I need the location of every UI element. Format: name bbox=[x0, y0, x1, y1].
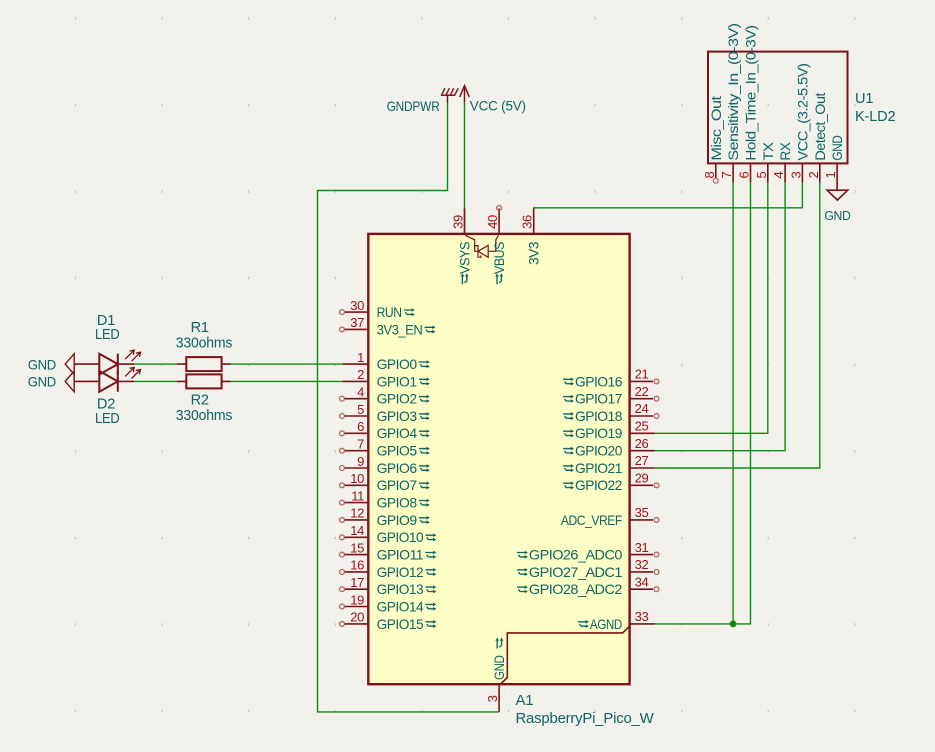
svg-text:5: 5 bbox=[357, 402, 364, 417]
svg-text:4: 4 bbox=[771, 172, 786, 179]
svg-text:3: 3 bbox=[485, 695, 500, 702]
svg-text:1: 1 bbox=[823, 172, 838, 179]
svg-text:21: 21 bbox=[635, 367, 649, 382]
svg-text:34: 34 bbox=[635, 574, 649, 589]
svg-text:GPIO20: GPIO20 bbox=[575, 444, 623, 459]
svg-text:22: 22 bbox=[635, 384, 649, 399]
svg-text:5: 5 bbox=[754, 172, 769, 179]
svg-text:35: 35 bbox=[635, 505, 649, 520]
svg-text:GPIO13: GPIO13 bbox=[377, 582, 424, 597]
svg-text:GPIO8: GPIO8 bbox=[377, 496, 418, 511]
svg-text:330ohms: 330ohms bbox=[176, 408, 233, 424]
svg-text:RX: RX bbox=[778, 142, 793, 160]
svg-text:11: 11 bbox=[351, 488, 364, 503]
svg-text:GPIO26_ADC0: GPIO26_ADC0 bbox=[529, 548, 623, 563]
svg-text:GPIO4: GPIO4 bbox=[377, 426, 418, 441]
svg-text:31: 31 bbox=[635, 540, 649, 555]
svg-text:7: 7 bbox=[357, 437, 364, 452]
svg-text:15: 15 bbox=[350, 540, 364, 555]
svg-text:GPIO1: GPIO1 bbox=[377, 374, 417, 389]
svg-text:VSYS: VSYS bbox=[457, 242, 472, 274]
svg-text:29: 29 bbox=[635, 471, 649, 486]
svg-text:GPIO14: GPIO14 bbox=[377, 599, 424, 614]
svg-text:26: 26 bbox=[635, 436, 649, 451]
svg-text:GPIO0: GPIO0 bbox=[377, 357, 418, 372]
svg-text:GND: GND bbox=[824, 208, 850, 223]
svg-text:LED: LED bbox=[95, 327, 120, 343]
svg-text:GPIO9: GPIO9 bbox=[377, 513, 418, 528]
svg-text:GPIO28_ADC2: GPIO28_ADC2 bbox=[529, 582, 622, 597]
svg-text:6: 6 bbox=[357, 419, 364, 434]
svg-text:2: 2 bbox=[357, 367, 364, 382]
svg-text:GPIO22: GPIO22 bbox=[575, 478, 622, 493]
svg-text:GPIO3: GPIO3 bbox=[377, 409, 418, 424]
svg-text:GND: GND bbox=[28, 357, 56, 372]
svg-text:TX: TX bbox=[761, 142, 776, 160]
svg-text:330ohms: 330ohms bbox=[176, 335, 233, 351]
svg-text:33: 33 bbox=[635, 609, 649, 624]
svg-text:2: 2 bbox=[806, 172, 821, 179]
svg-text:GPIO11: GPIO11 bbox=[377, 548, 424, 563]
svg-text:GPIO2: GPIO2 bbox=[377, 392, 417, 407]
svg-text:GPIO19: GPIO19 bbox=[575, 426, 623, 441]
svg-text:25: 25 bbox=[635, 419, 649, 434]
svg-text:Hold_Time_In_(0-3V): Hold_Time_In_(0-3V) bbox=[744, 26, 759, 161]
svg-text:1: 1 bbox=[357, 350, 364, 365]
svg-text:GPIO18: GPIO18 bbox=[575, 409, 623, 424]
svg-text:GPIO21: GPIO21 bbox=[575, 461, 622, 476]
svg-text:U1: U1 bbox=[855, 91, 873, 107]
svg-text:VCC_(3.2-5.5V): VCC_(3.2-5.5V) bbox=[796, 64, 811, 161]
svg-text:K-LD2: K-LD2 bbox=[855, 109, 895, 125]
svg-text:Misc_Out: Misc_Out bbox=[709, 96, 724, 161]
svg-text:GPIO5: GPIO5 bbox=[377, 444, 418, 459]
svg-text:GPIO15: GPIO15 bbox=[377, 617, 424, 632]
svg-text:24: 24 bbox=[635, 401, 649, 416]
svg-text:Sensitivity_In_(0-3V): Sensitivity_In_(0-3V) bbox=[726, 24, 741, 161]
svg-text:32: 32 bbox=[635, 557, 649, 572]
svg-text:19: 19 bbox=[350, 592, 364, 607]
svg-text:27: 27 bbox=[635, 453, 649, 468]
svg-text:6: 6 bbox=[737, 172, 752, 179]
svg-text:4: 4 bbox=[357, 385, 364, 400]
svg-text:GPIO12: GPIO12 bbox=[377, 565, 424, 580]
svg-text:36: 36 bbox=[520, 215, 535, 229]
svg-text:GPIO6: GPIO6 bbox=[377, 461, 418, 476]
svg-text:3: 3 bbox=[788, 172, 803, 179]
svg-text:VBUS: VBUS bbox=[492, 242, 507, 274]
svg-text:RaspberryPi_Pico_W: RaspberryPi_Pico_W bbox=[516, 710, 655, 727]
svg-text:7: 7 bbox=[719, 172, 734, 179]
svg-text:20: 20 bbox=[350, 610, 364, 625]
svg-text:R1: R1 bbox=[191, 320, 209, 336]
svg-text:8: 8 bbox=[702, 172, 717, 179]
svg-text:9: 9 bbox=[357, 454, 364, 469]
svg-text:40: 40 bbox=[485, 215, 500, 229]
svg-text:GPIO16: GPIO16 bbox=[575, 374, 623, 389]
svg-text:3V3_EN: 3V3_EN bbox=[377, 322, 423, 337]
svg-text:RUN: RUN bbox=[377, 305, 402, 320]
svg-text:3V3: 3V3 bbox=[527, 241, 542, 265]
svg-text:AGND: AGND bbox=[590, 617, 622, 632]
svg-text:GND: GND bbox=[492, 655, 507, 680]
svg-text:GND: GND bbox=[28, 375, 56, 390]
svg-text:37: 37 bbox=[350, 315, 364, 330]
svg-text:A1: A1 bbox=[516, 692, 534, 709]
svg-text:39: 39 bbox=[451, 215, 466, 229]
svg-text:VCC (5V): VCC (5V) bbox=[470, 98, 526, 114]
svg-text:ADC_VREF: ADC_VREF bbox=[561, 513, 622, 528]
svg-text:GPIO10: GPIO10 bbox=[377, 530, 424, 545]
svg-text:16: 16 bbox=[350, 558, 364, 573]
svg-text:GPIO17: GPIO17 bbox=[575, 392, 622, 407]
svg-text:17: 17 bbox=[350, 575, 364, 590]
svg-text:GND: GND bbox=[830, 135, 845, 160]
svg-text:Detect_Out: Detect_Out bbox=[813, 92, 828, 160]
svg-text:14: 14 bbox=[350, 523, 364, 538]
svg-text:GPIO7: GPIO7 bbox=[377, 478, 417, 493]
svg-text:GPIO27_ADC1: GPIO27_ADC1 bbox=[529, 565, 622, 580]
svg-text:R2: R2 bbox=[191, 392, 209, 408]
svg-text:30: 30 bbox=[350, 298, 364, 313]
svg-text:GNDPWR: GNDPWR bbox=[387, 98, 440, 114]
svg-text:10: 10 bbox=[350, 471, 364, 486]
svg-text:12: 12 bbox=[350, 506, 364, 521]
svg-text:LED: LED bbox=[95, 411, 120, 427]
